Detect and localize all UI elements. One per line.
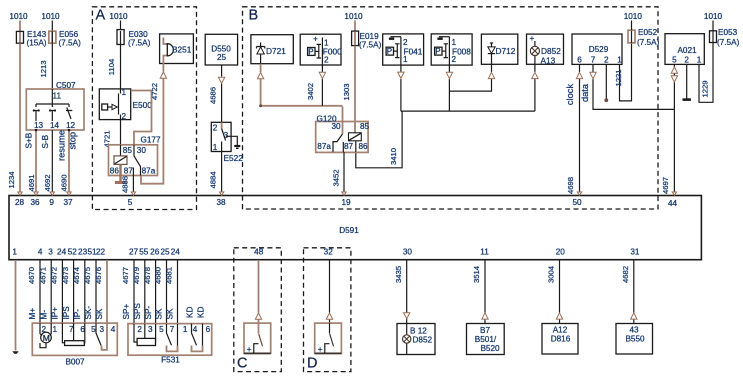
svg-text:IP-: IP-	[73, 309, 82, 320]
wire 4673 (IPS) D591 pin 52 to B007 pin 6	[61, 260, 74, 323]
svg-text:1: 1	[183, 325, 188, 334]
fuse E052 (7.5A)	[628, 28, 660, 47]
svg-text:30: 30	[332, 122, 342, 131]
wire 1234 from fuse E143 to D591 pin 28	[7, 43, 22, 195]
svg-text:1213: 1213	[39, 60, 48, 77]
svg-text:F531: F531	[161, 356, 180, 365]
wire data from D529 pin 7 to A021 pin 5 wire, with signal arrow	[580, 64, 675, 109]
svg-text:4674: 4674	[72, 266, 81, 284]
svg-text:(15A): (15A)	[27, 39, 47, 48]
svg-text:48: 48	[254, 248, 264, 257]
wire 1221 from D529 pin 1 to fuse E052	[614, 43, 632, 101]
switch in box D	[315, 323, 342, 354]
svg-text:20: 20	[556, 248, 566, 257]
svg-text:D816: D816	[551, 335, 571, 344]
svg-text:4677: 4677	[121, 267, 130, 284]
net 1010 (supply for fuse E019)	[344, 12, 363, 21]
svg-text:clock: clock	[565, 84, 575, 106]
svg-text:S-B: S-B	[41, 134, 50, 148]
svg-text:12: 12	[66, 121, 76, 130]
svg-text:2: 2	[324, 56, 329, 65]
svg-text:14: 14	[50, 121, 60, 130]
svg-text:3: 3	[48, 248, 53, 257]
svg-text:2: 2	[684, 55, 689, 64]
svg-text:D: D	[307, 356, 317, 372]
svg-text:52: 52	[68, 248, 78, 257]
svg-text:31: 31	[630, 248, 640, 257]
svg-text:4680: 4680	[154, 267, 163, 284]
svg-text:P: P	[308, 48, 313, 57]
net 1010 (supply for fuse E053)	[704, 12, 723, 31]
pedal switch unit F531	[128, 324, 212, 365]
fuse E030 (7.5A)	[117, 30, 151, 48]
svg-text:B7: B7	[480, 326, 490, 335]
svg-text:28: 28	[15, 198, 25, 207]
svg-text:4676: 4676	[94, 267, 103, 284]
svg-text:B 12: B 12	[410, 327, 427, 336]
wire 4671 (M-) D591 pin 3 to B007 pin 1	[38, 260, 51, 323]
diagnostic connector D550 pin 25	[205, 34, 237, 65]
svg-text:4681: 4681	[165, 267, 174, 284]
svg-text:B251: B251	[172, 45, 192, 55]
svg-text:3435: 3435	[394, 266, 403, 283]
svg-text:F000: F000	[323, 47, 342, 57]
svg-text:86: 86	[359, 142, 369, 151]
svg-text:D852: D852	[413, 336, 433, 345]
svg-text:SPS: SPS	[133, 303, 142, 320]
svg-text:24: 24	[57, 248, 67, 257]
control unit D591 box	[9, 196, 701, 260]
svg-text:86: 86	[110, 167, 120, 176]
svg-text:1: 1	[53, 325, 58, 334]
svg-text:SP+: SP+	[122, 304, 131, 320]
svg-text:1: 1	[617, 55, 622, 64]
svg-text:A: A	[96, 8, 106, 24]
switch in box C	[244, 323, 271, 354]
svg-text:11: 11	[480, 248, 489, 257]
pressure switch F000	[300, 34, 342, 65]
svg-text:1010: 1010	[109, 12, 128, 21]
svg-text:4670: 4670	[27, 267, 36, 284]
svg-text:4884: 4884	[209, 171, 218, 189]
wire 4670 (M+) D591 pin 4 to B007 pin 2	[27, 260, 40, 323]
buzzer B251	[160, 34, 194, 64]
net 1010 (supply for fuse E030)	[109, 12, 128, 21]
svg-text:(7.5A): (7.5A)	[359, 41, 382, 50]
wire 4679 (SPS) D591 pin 55 to F531 pin 3	[132, 260, 145, 324]
svg-text:SK-: SK-	[84, 306, 93, 320]
svg-text:IPS: IPS	[62, 306, 71, 320]
svg-text:G177: G177	[141, 136, 161, 145]
svg-text:30: 30	[137, 146, 147, 155]
svg-text:B550: B550	[625, 335, 645, 344]
svg-text:2: 2	[213, 124, 218, 133]
net 1010 (supply for fuse E052)	[624, 12, 643, 30]
svg-text:2: 2	[137, 325, 142, 334]
svg-text:1010: 1010	[344, 12, 363, 21]
ground bar below relay G177 pin 86	[115, 181, 127, 184]
svg-text:43: 43	[629, 326, 639, 335]
wire 4697 from A021 pin 5 to D591 pin 44, with bidirectional arrows	[661, 64, 677, 195]
warning lamp B12 / D852	[397, 324, 435, 355]
wire 3435 from D591 pin 30 to lamp B12/D852, with signal arrow	[394, 260, 410, 324]
svg-text:9: 9	[49, 198, 54, 207]
svg-text:11: 11	[53, 92, 62, 101]
svg-text:85: 85	[360, 122, 370, 131]
wire 4678 (SP-) D591 pin 26 to F531 pin 5	[143, 260, 156, 324]
svg-text:SP-: SP-	[144, 306, 153, 320]
svg-text:4: 4	[38, 248, 43, 257]
wire 4686 from D550 pin 25 to clutch switch E522 pin 2, with signal arrow	[208, 65, 225, 122]
svg-text:E500: E500	[133, 100, 153, 110]
svg-text:P: P	[435, 47, 440, 56]
cruise actuator B007	[32, 323, 117, 366]
wire 3004 from D591 pin 20 to A12/D816, with signal arrow	[547, 260, 563, 324]
svg-text:87a: 87a	[317, 142, 331, 151]
ground symbol below D591 pin 1	[12, 351, 18, 354]
wire 4672 (IP+) D591 pin 24 to B007 pin 7	[50, 260, 63, 323]
svg-text:SK: SK	[95, 308, 104, 319]
svg-text:55: 55	[139, 248, 149, 257]
svg-text:2: 2	[604, 55, 609, 64]
svg-text:4: 4	[111, 325, 116, 334]
D591 top edge pin numbers 28 36 9 37 5 38 19 50 44	[15, 198, 678, 208]
svg-text:+: +	[313, 35, 318, 44]
svg-text:4697: 4697	[661, 177, 670, 194]
svg-text:1010: 1010	[624, 12, 643, 21]
svg-text:4672: 4672	[50, 267, 59, 284]
svg-text:5: 5	[91, 325, 96, 334]
svg-text:S+B: S+B	[25, 132, 34, 148]
svg-text:4698: 4698	[566, 177, 575, 194]
svg-text:44: 44	[668, 199, 678, 208]
wire from 1010 to fuse E056	[51, 21, 53, 32]
wire 4682 from D591 pin 31 to B550, with signal arrow	[621, 260, 637, 324]
svg-text:3004: 3004	[547, 265, 556, 283]
svg-text:50: 50	[572, 198, 582, 207]
wire from D591 pin 48 to switch in box C, with signal arrow	[255, 260, 261, 323]
svg-text:1234: 1234	[7, 171, 16, 189]
fuse E019 (7.5A)	[352, 31, 382, 49]
svg-text:1229: 1229	[701, 80, 710, 97]
svg-text:C: C	[237, 356, 247, 372]
bus wire joining F041 F008 D712 D852	[401, 110, 535, 112]
svg-text:SK: SK	[166, 308, 175, 319]
svg-text:A021: A021	[677, 46, 697, 55]
svg-text:1104: 1104	[107, 58, 116, 75]
svg-text:1: 1	[697, 55, 702, 64]
wire 4698 (clock) from D529 pin 6 to D591 pin 50, with signal arrow	[565, 64, 583, 195]
diode D712	[481, 34, 517, 64]
cruise control vacuum pump / solenoid E500	[99, 88, 152, 121]
wire 4691 (S+B) C507 pin 13 to D591 pin 36	[25, 129, 39, 195]
wire 1213 from fuse E056 to switch C507 pin 11	[39, 43, 53, 89]
svg-text:19: 19	[341, 198, 351, 207]
svg-text:IP+: IP+	[51, 307, 60, 320]
svg-text:1010: 1010	[41, 12, 60, 21]
svg-text:85: 85	[123, 146, 133, 155]
wire from 1010 to fuse E030	[120, 21, 122, 30]
svg-text:38: 38	[216, 198, 226, 207]
warning lamp D852 (A13)	[527, 34, 564, 66]
dashed box D	[304, 248, 351, 372]
svg-text:4690: 4690	[60, 174, 69, 191]
wire from D591 pin 32 to switch in box D, with signal arrow	[326, 260, 332, 323]
svg-text:5: 5	[672, 55, 677, 64]
svg-text:KD: KD	[197, 307, 206, 318]
wire 4677 (SP+) D591 pin 27 to F531 pin 2	[121, 260, 134, 324]
svg-text:+: +	[247, 345, 252, 354]
svg-text:32: 32	[324, 248, 334, 257]
fuse E056 (7.5A)	[49, 30, 81, 48]
wire 4721 from E500 pin 2 to relay G177 pin 85	[103, 120, 121, 148]
svg-text:4682: 4682	[621, 266, 630, 283]
svg-text:4671: 4671	[38, 267, 47, 284]
wire 3452 from relay G120 pin 87 to D591 pin 19	[332, 152, 347, 195]
svg-text:A13: A13	[541, 56, 556, 66]
wire from D591 pin 1 to ground	[15, 260, 17, 351]
wire 4692 (S-B) C507 pin 14 to D591 pin 9	[41, 130, 55, 195]
svg-text:3: 3	[148, 325, 153, 334]
wire 3514 from D591 pin 11 to switch B7/B501/B520, with signal arrow	[472, 260, 488, 324]
wire 4884 from E522 pin 1 to D591 pin 38	[209, 152, 224, 196]
svg-text:4: 4	[193, 325, 198, 334]
svg-text:7: 7	[170, 325, 175, 334]
svg-text:1010: 1010	[704, 12, 723, 21]
wire 4888 from relay G177 pin 87 to D591 pin 5	[120, 176, 135, 196]
svg-text:13: 13	[34, 121, 44, 130]
wire 1229 from A021 pin 1 to fuse E053	[699, 43, 713, 103]
svg-text:A12: A12	[553, 326, 568, 335]
wire from D852 to bus, with signal arrow	[532, 64, 538, 111]
svg-text:M-: M-	[39, 310, 48, 320]
svg-text:F008: F008	[452, 47, 471, 57]
svg-text:2: 2	[122, 112, 127, 121]
svg-text:37: 37	[63, 198, 73, 207]
svg-text:resume: resume	[57, 130, 67, 161]
svg-text:3402: 3402	[306, 83, 315, 100]
svg-text:M+: M+	[28, 308, 37, 320]
svg-text:24: 24	[171, 248, 181, 257]
dashed box B	[243, 7, 659, 209]
svg-text:26: 26	[150, 248, 160, 257]
wire 4674 (IP-) D591 pin 23 to B007 pin 5	[72, 260, 85, 323]
svg-text:D529: D529	[589, 45, 609, 54]
TCM A021	[665, 34, 704, 65]
svg-text:(7.5A): (7.5A)	[59, 39, 82, 48]
instrument cluster D529	[572, 34, 622, 64]
wire 4681 (SK) D591 pin 24 to F531 pin 1	[165, 260, 178, 324]
cruise control switch C507	[26, 81, 84, 130]
svg-text:E053: E053	[718, 28, 738, 37]
svg-text:7: 7	[591, 55, 596, 64]
svg-text:(7.5A): (7.5A)	[717, 38, 740, 47]
svg-text:87: 87	[344, 142, 354, 151]
svg-text:5: 5	[128, 198, 133, 207]
svg-text:4686: 4686	[208, 87, 217, 104]
svg-text:4691: 4691	[27, 174, 36, 191]
svg-text:stop: stop	[68, 132, 78, 150]
svg-text:SK: SK	[155, 308, 164, 319]
svg-text:4888: 4888	[120, 176, 129, 193]
stub wire at D529 pin 2 with terminator dot	[604, 64, 608, 102]
connector A12 / D816	[542, 324, 578, 355]
svg-text:1010: 1010	[9, 12, 28, 21]
svg-text:B007: B007	[65, 358, 85, 367]
net 1010 (supply for fuse E143)	[9, 12, 28, 21]
svg-text:KD: KD	[186, 307, 195, 318]
wire from E500 pin 1 to relay G177 pin 30	[131, 91, 152, 145]
svg-text:1: 1	[12, 248, 17, 257]
switch B7 / B501 / B520	[467, 324, 505, 355]
svg-text:3: 3	[100, 325, 105, 334]
ground stub at E522 pin 3	[231, 136, 240, 148]
wire 1104 from fuse E030 to solenoid E500 pin 1	[107, 45, 121, 89]
wire from D721 to junction with F000 wire 3402, with signal arrow	[257, 64, 342, 108]
wire 3410 from bus to relay G120 pin 86	[356, 111, 402, 168]
svg-text:+: +	[530, 34, 535, 43]
KD labels at F531 pins 1 and 4	[186, 307, 206, 318]
wire 4675 (SK-) D591 pin 51 to B007 pin 3	[83, 260, 96, 323]
svg-text:(7.5A): (7.5A)	[637, 38, 660, 47]
svg-text:D852: D852	[541, 46, 561, 56]
svg-text:C507: C507	[56, 81, 76, 90]
wire 4676 (SK) D591 pin 22 to B007 pin 4	[94, 260, 107, 323]
D591 bottom edge pin numbers 1 4 3 24 52 23 51 22 27 55 26 25 24 48 32 30 11 20 31	[12, 248, 640, 257]
svg-text:(7.5A): (7.5A)	[128, 39, 151, 48]
switch 43 / B550	[616, 324, 653, 355]
pressure switch F041	[383, 34, 424, 65]
svg-text:87: 87	[124, 167, 134, 176]
svg-text:23: 23	[78, 248, 88, 257]
svg-text:D712: D712	[496, 46, 516, 56]
svg-text:4692: 4692	[43, 174, 52, 191]
svg-text:1: 1	[213, 143, 218, 152]
relay G120	[316, 107, 370, 153]
svg-text:22: 22	[96, 248, 106, 257]
svg-text:P: P	[387, 47, 392, 56]
diode D721	[251, 35, 293, 64]
svg-text:27: 27	[129, 248, 139, 257]
svg-text:M: M	[43, 333, 50, 343]
svg-text:4675: 4675	[83, 267, 92, 284]
fuse E053 (7.5A)	[710, 28, 740, 47]
svg-text:E522: E522	[224, 153, 244, 163]
svg-text:4722: 4722	[150, 83, 159, 100]
svg-text:D591: D591	[339, 226, 359, 235]
svg-text:3410: 3410	[389, 148, 398, 165]
svg-text:1303: 1303	[342, 83, 351, 100]
svg-text:4678: 4678	[143, 267, 152, 284]
svg-text:25: 25	[217, 53, 227, 62]
svg-text:B: B	[249, 8, 259, 24]
wire from F041 pin 1 to bus, with signal arrow	[398, 65, 404, 111]
relay G177	[109, 136, 161, 183]
wire from D712 to F008 wire junction, with signal arrow	[449, 64, 494, 91]
svg-text:data: data	[580, 83, 590, 102]
svg-text:4679: 4679	[132, 267, 141, 284]
svg-text:6: 6	[206, 325, 211, 334]
dashed box C	[234, 248, 281, 372]
svg-text:1221: 1221	[614, 69, 623, 86]
svg-text:5: 5	[159, 325, 164, 334]
svg-text:6: 6	[577, 55, 582, 64]
svg-text:3514: 3514	[472, 265, 481, 283]
svg-text:B520: B520	[480, 344, 500, 353]
svg-text:B501/: B501/	[475, 335, 497, 344]
svg-text:D721: D721	[266, 46, 286, 56]
dashed box A	[92, 7, 196, 210]
svg-text:E052: E052	[638, 28, 658, 37]
wire 4722 from B251 to relay G177 pin 87a, with signal arrow	[141, 64, 167, 184]
svg-text:1: 1	[122, 88, 127, 97]
wire 1303 from fuse E019 to relay G120 pin 85	[342, 46, 355, 133]
svg-text:4673: 4673	[61, 267, 70, 284]
svg-text:F041: F041	[404, 47, 423, 57]
svg-text:+: +	[318, 345, 323, 354]
wire 4680 (SK) D591 pin 25 to F531 pin 7	[154, 260, 167, 324]
clutch pedal switch E522	[211, 122, 243, 163]
net 1010 (supply for fuse E056)	[41, 12, 60, 21]
wire 4690 (resume / stop) C507 pin 12 to D591 pin 37	[57, 129, 78, 195]
wire from 1010 to fuse E019	[354, 21, 356, 32]
ground stub at A021 pin 2	[683, 64, 691, 99]
wire 3402 from F000 pin 2 to D721 junction, with signal arrow	[306, 65, 326, 106]
wire from 1010 to fuse E143	[19, 21, 21, 32]
svg-text:25: 25	[160, 248, 170, 257]
svg-text:3452: 3452	[332, 169, 341, 186]
svg-text:87a: 87a	[142, 167, 156, 176]
pressure switch F008	[431, 34, 472, 65]
wire from F008 pin 2 to bus, with signal arrow	[446, 65, 452, 111]
svg-text:36: 36	[30, 198, 40, 207]
svg-text:30: 30	[403, 248, 413, 257]
fuse E143 (15A)	[16, 30, 46, 48]
